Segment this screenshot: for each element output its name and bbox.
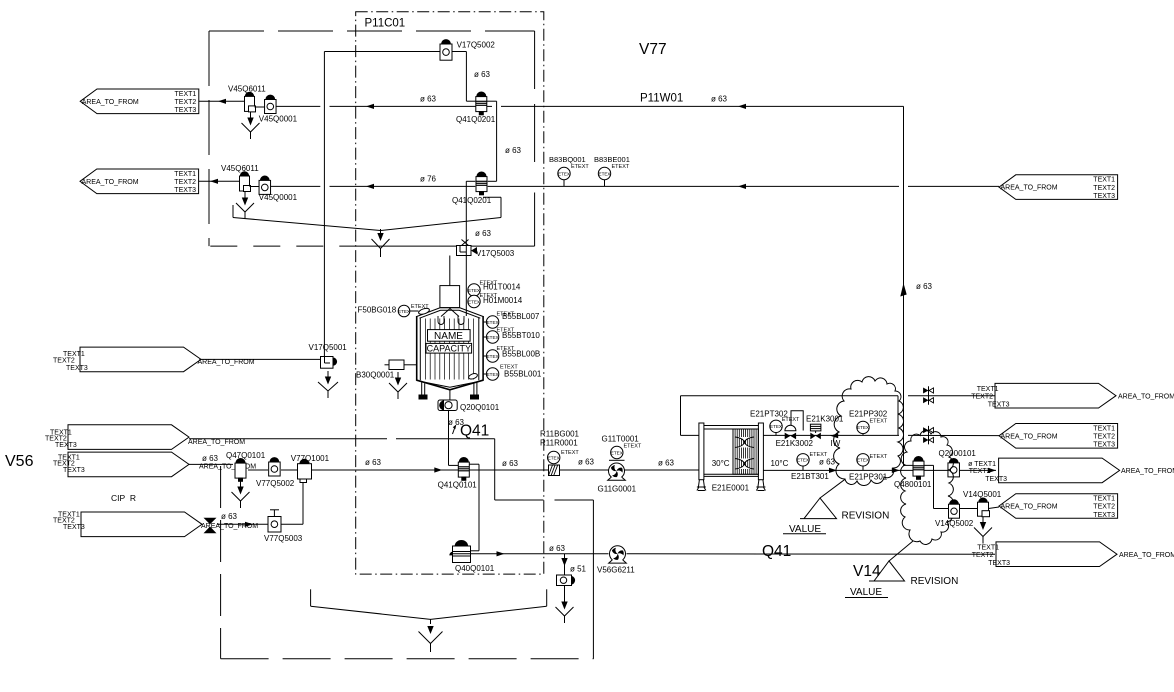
drain header right diagonal [381,218,502,231]
svg-text:TEXT3: TEXT3 [66,365,88,372]
svg-text:ø 51: ø 51 [570,565,587,574]
vessel internal baffle U right [458,316,464,325]
vessel shell right wall [482,316,484,381]
pipe stub to tag B [199,180,240,182]
main pipe R11 to G11 pump [560,469,609,471]
dashed boundary left edge [208,31,210,246]
svg-text:TEXT3: TEXT3 [1093,512,1115,519]
svg-text:TEXT1: TEXT1 [174,171,196,178]
svg-text:AREA_TO_FROM: AREA_TO_FROM [1121,468,1174,475]
svg-text:R11R0001: R11R0001 [540,438,578,447]
svg-text:TEXT1: TEXT1 [1093,177,1115,184]
pipe drop x466 to vessel roof [465,181,467,316]
pipe V14Q5002 to V14Q5001 [960,508,978,510]
stub B83BE001 [604,180,606,187]
tag AREA_TO_FROM (right row1) [995,383,1116,408]
vessel roof [417,308,483,317]
main pipe HX to Q48 [763,469,913,471]
pipe Q47 to V77Q5002 [248,469,268,471]
tag AREA_TO_FROM (right row2) [999,424,1118,449]
svg-text:AREA_TO_FROM: AREA_TO_FROM [1001,433,1058,440]
svg-text:E21K3001: E21K3001 [806,415,844,424]
drain funnel o51 [564,596,566,603]
svg-text:Q4800101: Q4800101 [894,480,932,489]
drain below Q47Q0101 [240,481,242,488]
instrument G11 ETEXT [611,446,623,458]
svg-text:TEXT1: TEXT1 [1093,425,1115,432]
svg-text:Q41Q0101: Q41Q0101 [438,481,478,490]
HX bottom rail [704,473,759,475]
svg-text:G11T0001: G11T0001 [602,434,640,443]
svg-text:ETEXT: ETEXT [571,164,589,170]
valve E21K3002 [785,425,796,431]
valve V45Q6011 (row1) [245,92,253,96]
dash-dot unit boundary P11C01 [356,12,544,574]
svg-text:ETEX: ETEX [797,458,809,463]
svg-text:ETEXT: ETEXT [411,304,429,310]
stub E21PP302 [862,434,864,436]
svg-text:V14: V14 [853,563,881,580]
main pipe Q48 to Q20 [924,469,948,471]
svg-text:TEXT3: TEXT3 [988,401,1010,408]
instrument F50BG018 [398,305,410,317]
svg-text:Q20Q0101: Q20Q0101 [460,403,500,412]
pipe vessel to pump [449,390,451,400]
svg-text:TEXT2: TEXT2 [175,99,197,106]
vessel nozzle top-left [418,307,430,315]
tag AREA_TO_FROM (right row5) [996,542,1117,567]
drain header left diagonal [233,218,381,231]
revision cloud (V14) [901,431,954,545]
valve E21K3001 [810,424,821,431]
dashed boundary right edge [534,31,536,172]
collector funnel (bottom) [430,619,432,624]
svg-text:V77Q5003: V77Q5003 [264,534,303,543]
svg-text:ETEX: ETEX [468,299,480,304]
svg-text:V45Q0001: V45Q0001 [259,115,298,124]
vessel inner cone top [441,309,459,317]
HX left foot [698,480,704,487]
svg-text:ø 63: ø 63 [502,459,519,468]
svg-text:Q41Q0201: Q41Q0201 [456,115,496,124]
svg-text:F50BG018: F50BG018 [358,306,397,315]
pipe from Q41Q0201 row1 to right corner [487,100,497,102]
valve Q40Q0101 [455,541,467,546]
svg-text:TEXT2: TEXT2 [53,358,75,365]
pipe corner into Q41Q0201 row1 [466,100,475,102]
instrument H01T0014 [468,284,480,296]
svg-text:AREA_TO_FROM: AREA_TO_FROM [1001,185,1058,192]
svg-text:AREA_TO_FROM: AREA_TO_FROM [188,439,245,446]
stub B30Q0001 to vessel [404,364,417,366]
pipe V77Q5003 to riser [281,523,303,525]
pump Q20Q0101 [438,400,457,411]
flow tick at Q41 outlet [453,426,456,435]
svg-text:TEXT1: TEXT1 [175,91,197,98]
tag AREA_TO_FROM A (row1) [80,89,199,114]
svg-text:V45Q0001: V45Q0001 [259,193,298,202]
stub B55BT010 [483,336,486,338]
pipe V14Q5001 to tag row4 [989,507,1000,509]
pipe supply2 to Q47 [189,463,233,465]
svg-text:Q41: Q41 [762,543,791,560]
double seat unit row1 [928,386,930,405]
drain below B30Q0001 [397,372,399,379]
valve V14Q5002 [950,500,959,504]
signal line PT302 to K3002 [791,411,803,431]
collector funnel (top bracket) [377,233,383,241]
svg-text:CAPACITY: CAPACITY [427,343,471,353]
svg-text:E21PP302: E21PP302 [849,410,888,419]
valve o51 sample [557,575,572,586]
tag AREA_TO_FROM (V17 row) [80,347,201,372]
svg-text:V45Q6011: V45Q6011 [228,85,266,94]
svg-text:ETEX: ETEX [599,171,611,176]
HX hourglass upper [735,437,754,442]
pipe drop x496 row1 to row2 [496,101,498,181]
revision triangle 2 [869,561,905,581]
svg-text:G11G0001: G11G0001 [598,485,637,494]
valve V17Q5002 [442,40,451,44]
svg-text:ETEXT: ETEXT [870,454,888,460]
valve V77Q1001 [300,459,309,463]
pipe upper conn row2 right [488,180,497,182]
svg-text:E21K3002: E21K3002 [776,439,814,448]
valve Q41Q0201 (row1) [477,92,486,97]
svg-text:V56G6211: V56G6211 [597,566,635,575]
pipe to valve V17Q5002 [324,51,440,53]
svg-text:ETEX: ETEX [770,424,782,429]
svg-text:TEXT3: TEXT3 [985,476,1007,483]
svg-text:V77Q5002: V77Q5002 [256,479,295,488]
vessel left leg [421,383,423,396]
inline strainer R11 [549,465,560,476]
svg-text:TEXT2: TEXT2 [1093,185,1115,192]
valve Q41Q0101 [459,458,468,463]
drain below V45Q6011 row1 [250,112,252,119]
HX left bar [699,423,704,480]
svg-text:AREA_TO_FROM: AREA_TO_FROM [1001,504,1058,511]
svg-text:TEXT3: TEXT3 [175,107,197,114]
revision triangle 1 [800,498,837,519]
instrument E21PP302 [857,421,869,433]
svg-text:TEXT2: TEXT2 [1093,434,1115,441]
main pipe Q41Q0101 to R11 [469,469,548,471]
svg-text:ETEXT: ETEXT [561,450,579,456]
vessel CAPACITY plate [426,343,472,353]
CIP connection hourglass [204,518,217,525]
double seat unit row2 [928,426,930,445]
pipe stub to tag A [199,100,245,102]
svg-text:ETEX: ETEX [398,309,410,314]
svg-text:V14Q5002: V14Q5002 [935,519,974,528]
HX right bar [758,423,763,480]
svg-text:ø 63: ø 63 [916,282,933,291]
svg-text:ø 63: ø 63 [505,146,522,155]
pipe row1 o63 long section to riser [501,105,904,107]
vent riser x534 [534,193,536,247]
pump V56G6211 [610,546,626,562]
flow arrow CIP [245,522,253,527]
valve V17Q5001 [321,357,334,369]
valve Q41Q0201 (row2) [477,172,486,177]
tag AREA_TO_FROM (supply2) [68,452,189,477]
valve V77Q5002 [270,458,279,462]
flow arrow bottom pipe [497,551,505,556]
pump top bar G11 [609,459,625,461]
flow arrow into tag row3 [988,468,996,473]
instrument E21PT302 [770,420,782,432]
pipe CIP to V77Q5003 [217,523,268,525]
pipe outlet corner [449,464,459,466]
svg-text:10°C: 10°C [771,459,789,468]
svg-text:REVISION: REVISION [842,511,890,522]
svg-text:TEXT1: TEXT1 [977,386,999,393]
HX plate pack [733,429,758,474]
svg-text:H01T0014: H01T0014 [483,283,521,292]
drain below V45Q6011 row2 [244,192,246,199]
svg-text:ø 63: ø 63 [365,458,382,467]
vessel bottom cone [417,380,483,390]
cooling loop left drop [680,396,682,436]
vessel NAME plate [428,330,471,342]
drain chain drop x593 [592,500,594,659]
revision leader 1 [820,479,845,498]
pump G11G0001 [609,463,625,479]
bottom pipe pump to tag row5 [627,553,996,555]
svg-text:TEXT3: TEXT3 [63,467,85,474]
valve V17Q5003 [457,246,472,256]
svg-text:TEXT1: TEXT1 [977,544,999,551]
stub E21PP301 [862,466,864,470]
vessel nozzle bottom-right [468,372,478,380]
valve V45Q0001 (row2) [260,176,269,180]
instrument B55BT010 [486,331,498,343]
svg-text:NAME: NAME [434,331,463,342]
flow arrow row2 o76 [738,184,746,189]
pipe drop x324 to V17Q5001 [323,52,325,357]
svg-text:ETEX: ETEX [611,450,623,455]
drain below V17Q5001 [327,371,329,378]
pipe tag to V17Q5001 [201,358,321,360]
svg-text:TEXT3: TEXT3 [174,187,196,194]
pipe row1 valve outlet stub [487,105,492,107]
pipe row1 o63 mid section [330,105,476,107]
svg-text:E21BT301: E21BT301 [791,472,829,481]
valve V14Q5001 [979,498,987,502]
pipe row1 o63 left section [276,105,320,107]
flow arrow into tag A [218,99,226,104]
svg-text:TEXT3: TEXT3 [55,442,77,449]
svg-text:V17Q5002: V17Q5002 [457,41,496,50]
riser jog horizontal [904,464,934,466]
svg-text:CIP R: CIP R [111,493,136,503]
svg-text:TEXT3: TEXT3 [1093,193,1115,200]
svg-text:ø TEXT1: ø TEXT1 [968,461,996,468]
svg-text:Q40Q0101: Q40Q0101 [455,564,495,573]
main pipe G11 to HX [625,469,699,471]
vessel right leg [473,383,475,395]
svg-text:ø 63: ø 63 [658,459,675,468]
vessel neck [440,286,460,308]
pipe row2 o76 mid section [330,185,476,187]
svg-text:V77: V77 [639,41,667,58]
pipe row2 right of valve [488,185,899,187]
underline VALUE 2 [845,597,888,599]
svg-text:B83BE001: B83BE001 [594,155,630,164]
tag AREA_TO_FROM B (row2) [80,169,199,194]
svg-text:Q47Q0101: Q47Q0101 [226,451,266,460]
CIP riser to V77Q1001 [302,483,304,525]
svg-text:TEXT2: TEXT2 [1093,504,1115,511]
svg-text:ETEXT: ETEXT [624,444,642,450]
svg-text:ø 63: ø 63 [475,229,492,238]
svg-text:V17Q5003: V17Q5003 [476,249,515,258]
bottom bracket right stub [546,589,548,606]
flow arrow supply [434,467,442,472]
cooling loop right drop [897,396,899,436]
svg-text:ø 63: ø 63 [221,512,238,521]
vessel internal baffle U left [438,316,444,325]
svg-text:V56: V56 [5,453,34,470]
svg-text:AREA_TO_FROM: AREA_TO_FROM [82,99,139,106]
valve V45Q6011 (row2) [240,172,248,176]
svg-text:ETEX: ETEX [857,458,869,463]
label REVISION 2 leader [889,541,913,561]
flow arrow IW [830,433,838,438]
svg-text:TEXT2: TEXT2 [972,552,994,559]
svg-text:IW: IW [831,439,841,448]
instrument B55BL00B [486,350,498,362]
svg-text:ø 63: ø 63 [819,458,836,467]
svg-text:ø 63: ø 63 [420,95,437,104]
wire between V45 valves row2 [250,186,260,188]
svg-text:REVISION: REVISION [911,576,959,587]
stub E21BT301 [802,466,804,470]
drain chain horizontal [495,499,544,501]
instrument B55BL007 [486,316,498,328]
instrument B83BQ001 [558,167,570,179]
dashed CIP boundary bottom edge [221,658,594,660]
pipe V77Q5002 to V77Q1001 [281,469,298,471]
svg-text:TEXT2: TEXT2 [969,468,991,475]
riser pipe x903 [903,106,905,465]
svg-text:ø 63: ø 63 [474,70,491,79]
cooling top pipe HX to cloud [763,434,899,436]
valve Q2000101 [949,459,958,463]
svg-text:TEXT2: TEXT2 [174,179,196,186]
riser jog drop x933 [933,465,935,508]
svg-text:Q41: Q41 [460,423,489,440]
drain header from Q41Q0201 row2 [483,196,501,198]
svg-text:ETEXT: ETEXT [870,419,888,425]
bottom pipe Q40 to pump [471,553,609,555]
svg-text:AREA_TO_FROM: AREA_TO_FROM [82,179,139,186]
pipe V17Q5003 to neck [449,256,451,286]
stub E21PT302 [775,433,777,436]
tag AREA_TO_FROM (right row3) [999,458,1120,483]
svg-text:B30Q0001: B30Q0001 [356,371,395,380]
svg-text:R11BG001: R11BG001 [540,429,580,438]
flow arrow after E21BT301 [829,468,837,473]
underline VALUE 1 [783,533,826,535]
cooling top pipe into HX [681,434,699,436]
flow arrow down o51 [561,558,567,566]
svg-text:ø 63: ø 63 [202,454,219,463]
svg-text:ø 63: ø 63 [711,95,728,104]
svg-text:P11C01: P11C01 [365,18,406,30]
tag AREA_TO_FROM (CIP) [81,512,202,537]
svg-text:V45Q6011: V45Q6011 [221,164,259,173]
instrument R11 ETEXT [548,451,560,463]
pipe drop x466 to row1 [465,52,467,102]
instrument E21PP301 [857,454,869,466]
svg-text:V77Q1001: V77Q1001 [291,454,330,463]
X mark on V17Q5003 [462,240,469,246]
svg-text:B55BL001: B55BL001 [504,370,542,379]
drain header left stub [232,205,234,218]
tag AREA_TO_FROM (top right) [999,175,1118,200]
HX top rail [704,425,759,427]
svg-text:V17Q5001: V17Q5001 [309,343,348,352]
valve Q47Q0101 [236,459,245,464]
svg-text:B83BQ001: B83BQ001 [549,155,586,164]
pipe into tag row1 [908,395,995,397]
branch Q41Q0101 to Q40 [469,463,479,465]
dashed CIP boundary left edge [220,466,222,659]
drain below V14Q5001 [982,517,984,524]
vessel internal tubes [424,319,426,380]
svg-text:TEXT2: TEXT2 [971,394,993,401]
pipe row2 o76 left section [271,185,321,187]
svg-text:ETEX: ETEX [558,171,570,176]
pipe into tag row2 [908,434,999,436]
flow arrow row2 at boundary [366,184,374,189]
svg-text:ø 63: ø 63 [549,544,566,553]
instrument B83BE001 [598,167,610,179]
svg-text:V14Q5001: V14Q5001 [963,490,1002,499]
bottom bracket right diagonal [431,606,547,619]
dashed boundary bottom edge [210,245,356,247]
svg-text:ETEX: ETEX [857,425,869,430]
valve V77Q5003 [268,517,281,533]
svg-text:VALUE: VALUE [850,587,882,598]
pipe Q20 to tag row3 [960,469,997,471]
svg-text:AREA_TO_FROM: AREA_TO_FROM [198,359,255,366]
stub B55BL001 [483,373,486,375]
svg-text:B55BL007: B55BL007 [502,312,540,321]
svg-text:B55BL00B: B55BL00B [502,350,540,359]
svg-text:ETEX: ETEX [487,320,499,325]
pipe from V17Q5002 to corner [452,51,466,53]
svg-text:ø 76: ø 76 [420,175,437,184]
svg-text:Q2000101: Q2000101 [939,449,977,458]
pipe outlet drop [448,411,450,466]
drain stub below o51 valve [564,586,566,597]
svg-text:TEXT3: TEXT3 [63,524,85,531]
HX hourglass lower [735,459,754,464]
riser flow arrow up [900,283,906,297]
svg-text:ETEX: ETEX [487,372,499,377]
revision cloud (E21) [834,377,904,486]
svg-text:B55BT010: B55BT010 [502,331,540,340]
dashed boundary top edge [209,30,535,32]
wire between V45 valves row1 [255,106,265,108]
stub B83BQ001 [563,180,565,187]
bottom bracket left diagonal [311,606,431,619]
main supply pipe to Q41Q0101 [312,469,459,471]
svg-text:TEXT3: TEXT3 [988,560,1010,567]
